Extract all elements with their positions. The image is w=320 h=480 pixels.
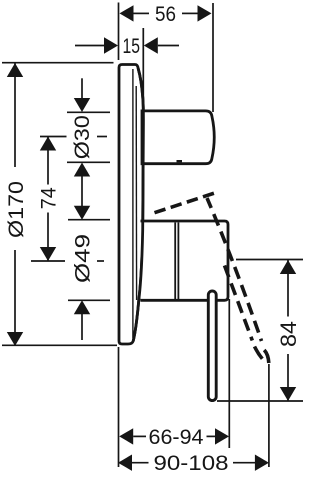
tick block top (y=112.3) [67, 111, 110, 113]
centerline block axis [40, 136, 67, 138]
extension line plate bottom (y=345.3) [2, 344, 117, 346]
dashed swung handle top edge [155, 193, 216, 213]
dashed swung lever back edge [225, 266, 253, 341]
svg-text:74: 74 [38, 187, 61, 209]
dimension 84 line [287, 260, 289, 317]
dashed swung lever back edge hook [255, 347, 263, 359]
extension line swung lever tip (x=268.9) [268, 364, 270, 467]
dimension 66-94 line [133, 435, 146, 437]
arrowhead 15 right [144, 37, 158, 53]
plate front silhouette re-stroke [133, 68, 143, 341]
extension line plate top (y=62.7) [2, 62, 114, 64]
arrowhead O170 top [7, 63, 23, 77]
arrowhead 56 right [198, 5, 212, 21]
lever pin (closed position) [208, 291, 216, 401]
dimension 15 line [75, 45, 104, 47]
plate face contour line A [132, 69, 134, 338]
extension line wall/back plane (x=118.5 top) [118, 3, 120, 61]
arrowhead O49 bottom [74, 300, 90, 314]
arrowhead O170 bottom [7, 332, 23, 346]
dimension O30 upper line [81, 78, 83, 99]
plate face contour line B [135, 86, 137, 300]
svg-text:Ø170: Ø170 [5, 181, 28, 238]
dashed swung lever front edge hook [264, 350, 269, 363]
svg-text:Ø30: Ø30 [71, 115, 94, 159]
tick block bottom (y=162.3) [67, 161, 110, 163]
extension line handle front (x=229.3) [228, 299, 230, 448]
centerline handle axis [31, 260, 65, 262]
arrowhead 90-108 left [118, 455, 132, 471]
arrowhead 74 bottom [40, 247, 56, 261]
extension line wall/back plane (x=118.5 bottom) [118, 347, 120, 467]
arrowhead 84 top [280, 260, 296, 274]
arrowhead O30 bottom [74, 163, 90, 177]
arrowhead O30 top [74, 98, 90, 112]
tick handle top (y=219.7) [68, 219, 110, 221]
arrowhead 15 left [104, 37, 118, 53]
dimension O170 line [14, 63, 16, 167]
arrowhead 56 left [120, 5, 134, 21]
dimension 90-108 line [132, 462, 149, 464]
arrowhead 90-108 right [255, 455, 269, 471]
arrowhead 66-94 left [119, 428, 133, 444]
arrowhead O49 top [74, 206, 90, 220]
svg-text:90-108: 90-108 [154, 452, 229, 475]
dimension O30/O49 shared middle line [81, 176, 83, 206]
escutcheon plate outline [119, 65, 143, 345]
svg-text:Ø49: Ø49 [72, 234, 95, 283]
svg-text:84: 84 [276, 321, 301, 347]
svg-text:66-94: 66-94 [149, 426, 204, 449]
handle body joint divider lines [174, 223, 176, 300]
extension line 84 bottom (y=401) [217, 400, 303, 402]
extension line 84 top (y=259.5) [236, 259, 303, 261]
dimension 56 line [134, 12, 150, 14]
arrowhead 74 top [40, 137, 56, 151]
cartridge cover block [142, 111, 214, 164]
block bottom edge notch [177, 160, 183, 162]
svg-text:56: 56 [155, 3, 176, 26]
arrowhead 84 bottom [280, 387, 296, 401]
arrowhead 66-94 right [215, 428, 229, 444]
dimension O49 lower line [81, 314, 83, 340]
extension line plate front (x=143.3) [142, 28, 144, 112]
handle body [141, 221, 229, 300]
dashed swung lever front edge [207, 198, 262, 341]
dimension 74 line [47, 137, 49, 185]
tick handle bottom (y=300.3) [68, 299, 110, 301]
extension line block front (x=213) [212, 3, 214, 112]
svg-text:15: 15 [123, 35, 141, 58]
